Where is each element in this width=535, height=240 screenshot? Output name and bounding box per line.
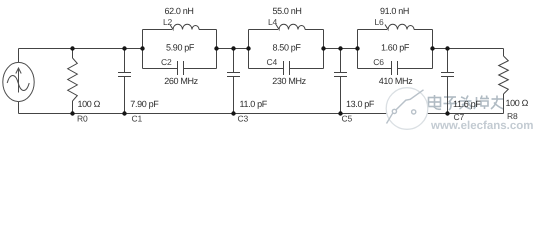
- node dot tank2 left: [246, 46, 250, 50]
- wire top rail segment 4: [433, 48, 504, 50]
- svg-text:410 MHz: 410 MHz: [379, 76, 413, 86]
- node dot tank2 right: [321, 46, 325, 50]
- svg-text:5.90 pF: 5.90 pF: [166, 43, 195, 53]
- tank 2 frame (L4/C4): [249, 30, 324, 69]
- svg-text:100 Ω: 100 Ω: [506, 98, 529, 108]
- inductor L2: [170, 24, 199, 29]
- watermark logo disc (elecfans): [386, 88, 428, 130]
- inductor L6: [385, 24, 414, 29]
- capacitor C5 (shunt): [334, 49, 347, 114]
- svg-text:11.0 pF: 11.0 pF: [240, 99, 268, 109]
- capacitor C3 (shunt): [227, 49, 240, 114]
- inductor L4: [276, 24, 305, 29]
- svg-text:www.elecfans.com: www.elecfans.com: [430, 120, 533, 132]
- svg-text:C6: C6: [373, 57, 384, 67]
- svg-text:1.60 pF: 1.60 pF: [381, 43, 410, 53]
- watermark chinese characters: [429, 95, 505, 110]
- svg-text:L6: L6: [375, 17, 385, 27]
- svg-text:R0: R0: [77, 114, 88, 124]
- capacitor C7 (shunt): [441, 49, 454, 114]
- wire top rail segment 2: [217, 48, 249, 50]
- svg-text:L4: L4: [268, 17, 278, 27]
- svg-text:C7: C7: [454, 112, 465, 122]
- svg-text:230 MHz: 230 MHz: [272, 76, 306, 86]
- AC source VG1: [3, 62, 34, 101]
- node dot tank1 right: [214, 46, 218, 50]
- svg-text:C1: C1: [132, 114, 143, 124]
- capacitor C1 (shunt): [118, 49, 131, 114]
- svg-text:L2: L2: [163, 17, 173, 27]
- node dot R0 top: [70, 46, 74, 50]
- wire top rail segment 1: [19, 48, 143, 50]
- node dot tank1 left: [140, 46, 144, 50]
- svg-text:62.0 nH: 62.0 nH: [164, 6, 193, 16]
- svg-text:11.6 pF: 11.6 pF: [453, 99, 481, 109]
- svg-text:100 Ω: 100 Ω: [78, 99, 101, 109]
- svg-text:91.0 nH: 91.0 nH: [380, 6, 409, 16]
- node dot C1 top: [122, 46, 126, 50]
- capacitor C4 plates: [284, 61, 290, 75]
- svg-text:C5: C5: [342, 114, 353, 124]
- svg-text:R8: R8: [507, 111, 518, 121]
- wire bottom rail: [19, 113, 504, 115]
- wire source bottom lead: [18, 102, 20, 114]
- svg-text:C2: C2: [161, 57, 172, 67]
- capacitor C2 plates: [178, 61, 184, 75]
- tank 3 frame (L6/C6): [358, 30, 433, 69]
- wire source top lead: [18, 49, 20, 63]
- svg-text:7.90 pF: 7.90 pF: [130, 99, 159, 109]
- capacitor C6 plates: [392, 61, 398, 75]
- node dot C1 bottom: [122, 111, 126, 115]
- svg-text:8.50 pF: 8.50 pF: [273, 43, 302, 53]
- node dot tank3 left: [355, 46, 359, 50]
- node dot C3 top: [231, 46, 235, 50]
- svg-text:13.0 pF: 13.0 pF: [346, 99, 375, 109]
- node dot C3 bottom: [231, 111, 235, 115]
- resistor R8: [499, 49, 509, 114]
- node dot C5 bottom: [338, 111, 342, 115]
- wire top rail segment 3: [324, 48, 358, 50]
- node dot C7 top: [445, 46, 449, 50]
- tank 1 frame (L2/C2): [143, 30, 217, 69]
- svg-text:C3: C3: [238, 114, 249, 124]
- resistor R0: [68, 49, 78, 114]
- node dot C5 top: [338, 46, 342, 50]
- svg-text:C4: C4: [267, 57, 278, 67]
- node dot C7 bottom: [445, 111, 449, 115]
- node dot tank3 right: [430, 46, 434, 50]
- svg-text:55.0 nH: 55.0 nH: [272, 6, 301, 16]
- svg-text:260 MHz: 260 MHz: [164, 76, 198, 86]
- node dot R0 bottom: [70, 111, 74, 115]
